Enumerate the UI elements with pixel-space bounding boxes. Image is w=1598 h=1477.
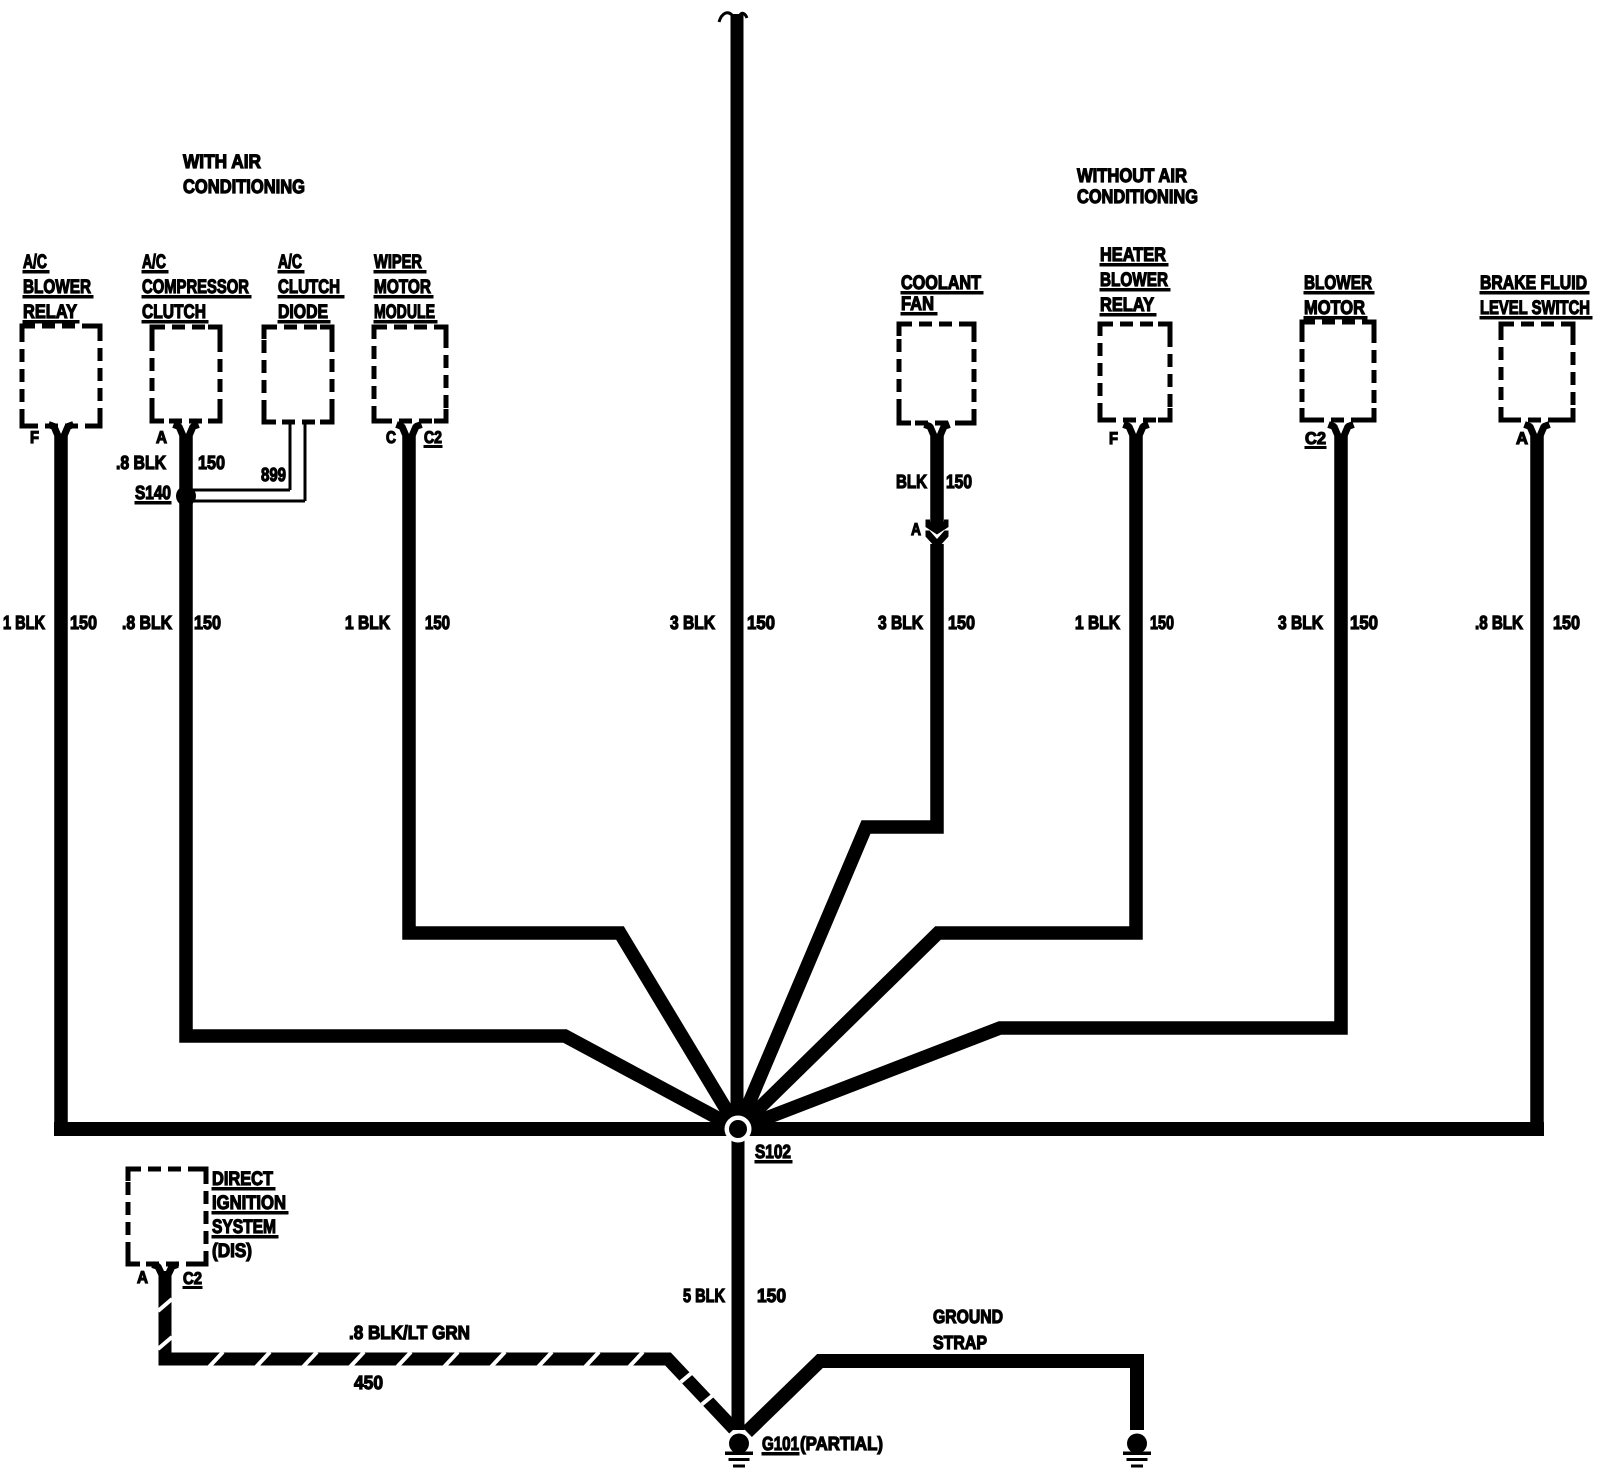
- svg-text:150: 150: [1553, 613, 1580, 634]
- svg-text:GROUND: GROUND: [933, 1307, 1003, 1328]
- svg-text:STRAP: STRAP: [933, 1333, 987, 1354]
- svg-text:S140: S140: [135, 483, 171, 504]
- svg-text:C2: C2: [424, 428, 442, 447]
- svg-text:BLOWER: BLOWER: [23, 276, 91, 298]
- svg-text:150: 150: [946, 472, 972, 493]
- svg-text:.8 BLK/LT GRN: .8 BLK/LT GRN: [349, 1323, 470, 1344]
- svg-text:WITHOUT AIR: WITHOUT AIR: [1077, 165, 1187, 187]
- svg-text:150: 150: [425, 613, 450, 634]
- svg-text:C2: C2: [183, 1269, 202, 1288]
- svg-text:150: 150: [757, 1286, 786, 1307]
- svg-text:3 BLK: 3 BLK: [878, 613, 923, 634]
- svg-text:1 BLK: 1 BLK: [3, 613, 45, 634]
- svg-text:DIRECT: DIRECT: [212, 1168, 273, 1190]
- svg-text:A: A: [911, 520, 921, 539]
- svg-text:BRAKE FLUID: BRAKE FLUID: [1480, 272, 1587, 294]
- svg-text:WIPER: WIPER: [374, 251, 422, 273]
- svg-text:150: 150: [948, 613, 975, 634]
- svg-text:.8 BLK: .8 BLK: [116, 453, 166, 474]
- svg-text:A/C: A/C: [142, 251, 166, 273]
- svg-text:LEVEL SWITCH: LEVEL SWITCH: [1480, 297, 1590, 319]
- svg-text:BLOWER: BLOWER: [1304, 272, 1372, 294]
- svg-text:IGNITION: IGNITION: [212, 1192, 286, 1214]
- svg-text:A: A: [137, 1268, 148, 1287]
- svg-text:CONDITIONING: CONDITIONING: [1077, 186, 1198, 208]
- svg-text:CLUTCH: CLUTCH: [278, 276, 340, 298]
- svg-text:899: 899: [261, 465, 286, 486]
- svg-text:RELAY: RELAY: [1100, 294, 1154, 316]
- svg-text:150: 150: [70, 613, 97, 634]
- svg-text:CLUTCH: CLUTCH: [142, 301, 206, 323]
- svg-text:(PARTIAL): (PARTIAL): [800, 1434, 883, 1455]
- svg-text:150: 150: [747, 613, 775, 634]
- svg-text:F: F: [30, 428, 39, 447]
- svg-text:150: 150: [1150, 613, 1174, 634]
- svg-text:MOTOR: MOTOR: [1304, 297, 1365, 319]
- svg-text:450: 450: [354, 1373, 383, 1394]
- svg-text:3 BLK: 3 BLK: [1278, 613, 1323, 634]
- svg-text:C2: C2: [1305, 429, 1326, 448]
- svg-text:1 BLK: 1 BLK: [1075, 613, 1120, 634]
- svg-text:SYSTEM: SYSTEM: [212, 1216, 276, 1238]
- svg-text:1 BLK: 1 BLK: [345, 613, 390, 634]
- svg-text:150: 150: [194, 613, 221, 634]
- svg-text:MOTOR: MOTOR: [374, 276, 431, 298]
- svg-text:WITH AIR: WITH AIR: [183, 151, 261, 173]
- svg-text:HEATER: HEATER: [1100, 244, 1166, 266]
- svg-text:A/C: A/C: [278, 251, 302, 273]
- svg-text:3 BLK: 3 BLK: [670, 613, 715, 634]
- svg-text:5 BLK: 5 BLK: [683, 1286, 725, 1307]
- svg-text:MODULE: MODULE: [374, 301, 435, 323]
- svg-text:DIODE: DIODE: [278, 301, 328, 323]
- svg-text:CONDITIONING: CONDITIONING: [183, 176, 305, 198]
- svg-text:FAN: FAN: [901, 293, 934, 315]
- svg-text:.8 BLK: .8 BLK: [122, 613, 172, 634]
- svg-text:(DIS): (DIS): [212, 1240, 252, 1262]
- svg-text:A: A: [1516, 429, 1528, 448]
- svg-text:150: 150: [1350, 613, 1378, 634]
- svg-text:BLK: BLK: [896, 472, 927, 493]
- svg-text:A/C: A/C: [23, 251, 47, 273]
- svg-text:.8 BLK: .8 BLK: [1475, 613, 1523, 634]
- svg-text:BLOWER: BLOWER: [1100, 269, 1168, 291]
- svg-text:A: A: [156, 428, 167, 447]
- svg-text:COMPRESSOR: COMPRESSOR: [142, 276, 249, 298]
- svg-text:C: C: [386, 428, 396, 447]
- svg-text:G101: G101: [762, 1434, 799, 1455]
- svg-text:F: F: [1109, 429, 1118, 448]
- svg-text:150: 150: [198, 453, 225, 474]
- svg-text:RELAY: RELAY: [23, 301, 77, 323]
- svg-text:S102: S102: [755, 1142, 791, 1163]
- svg-text:COOLANT: COOLANT: [901, 272, 981, 294]
